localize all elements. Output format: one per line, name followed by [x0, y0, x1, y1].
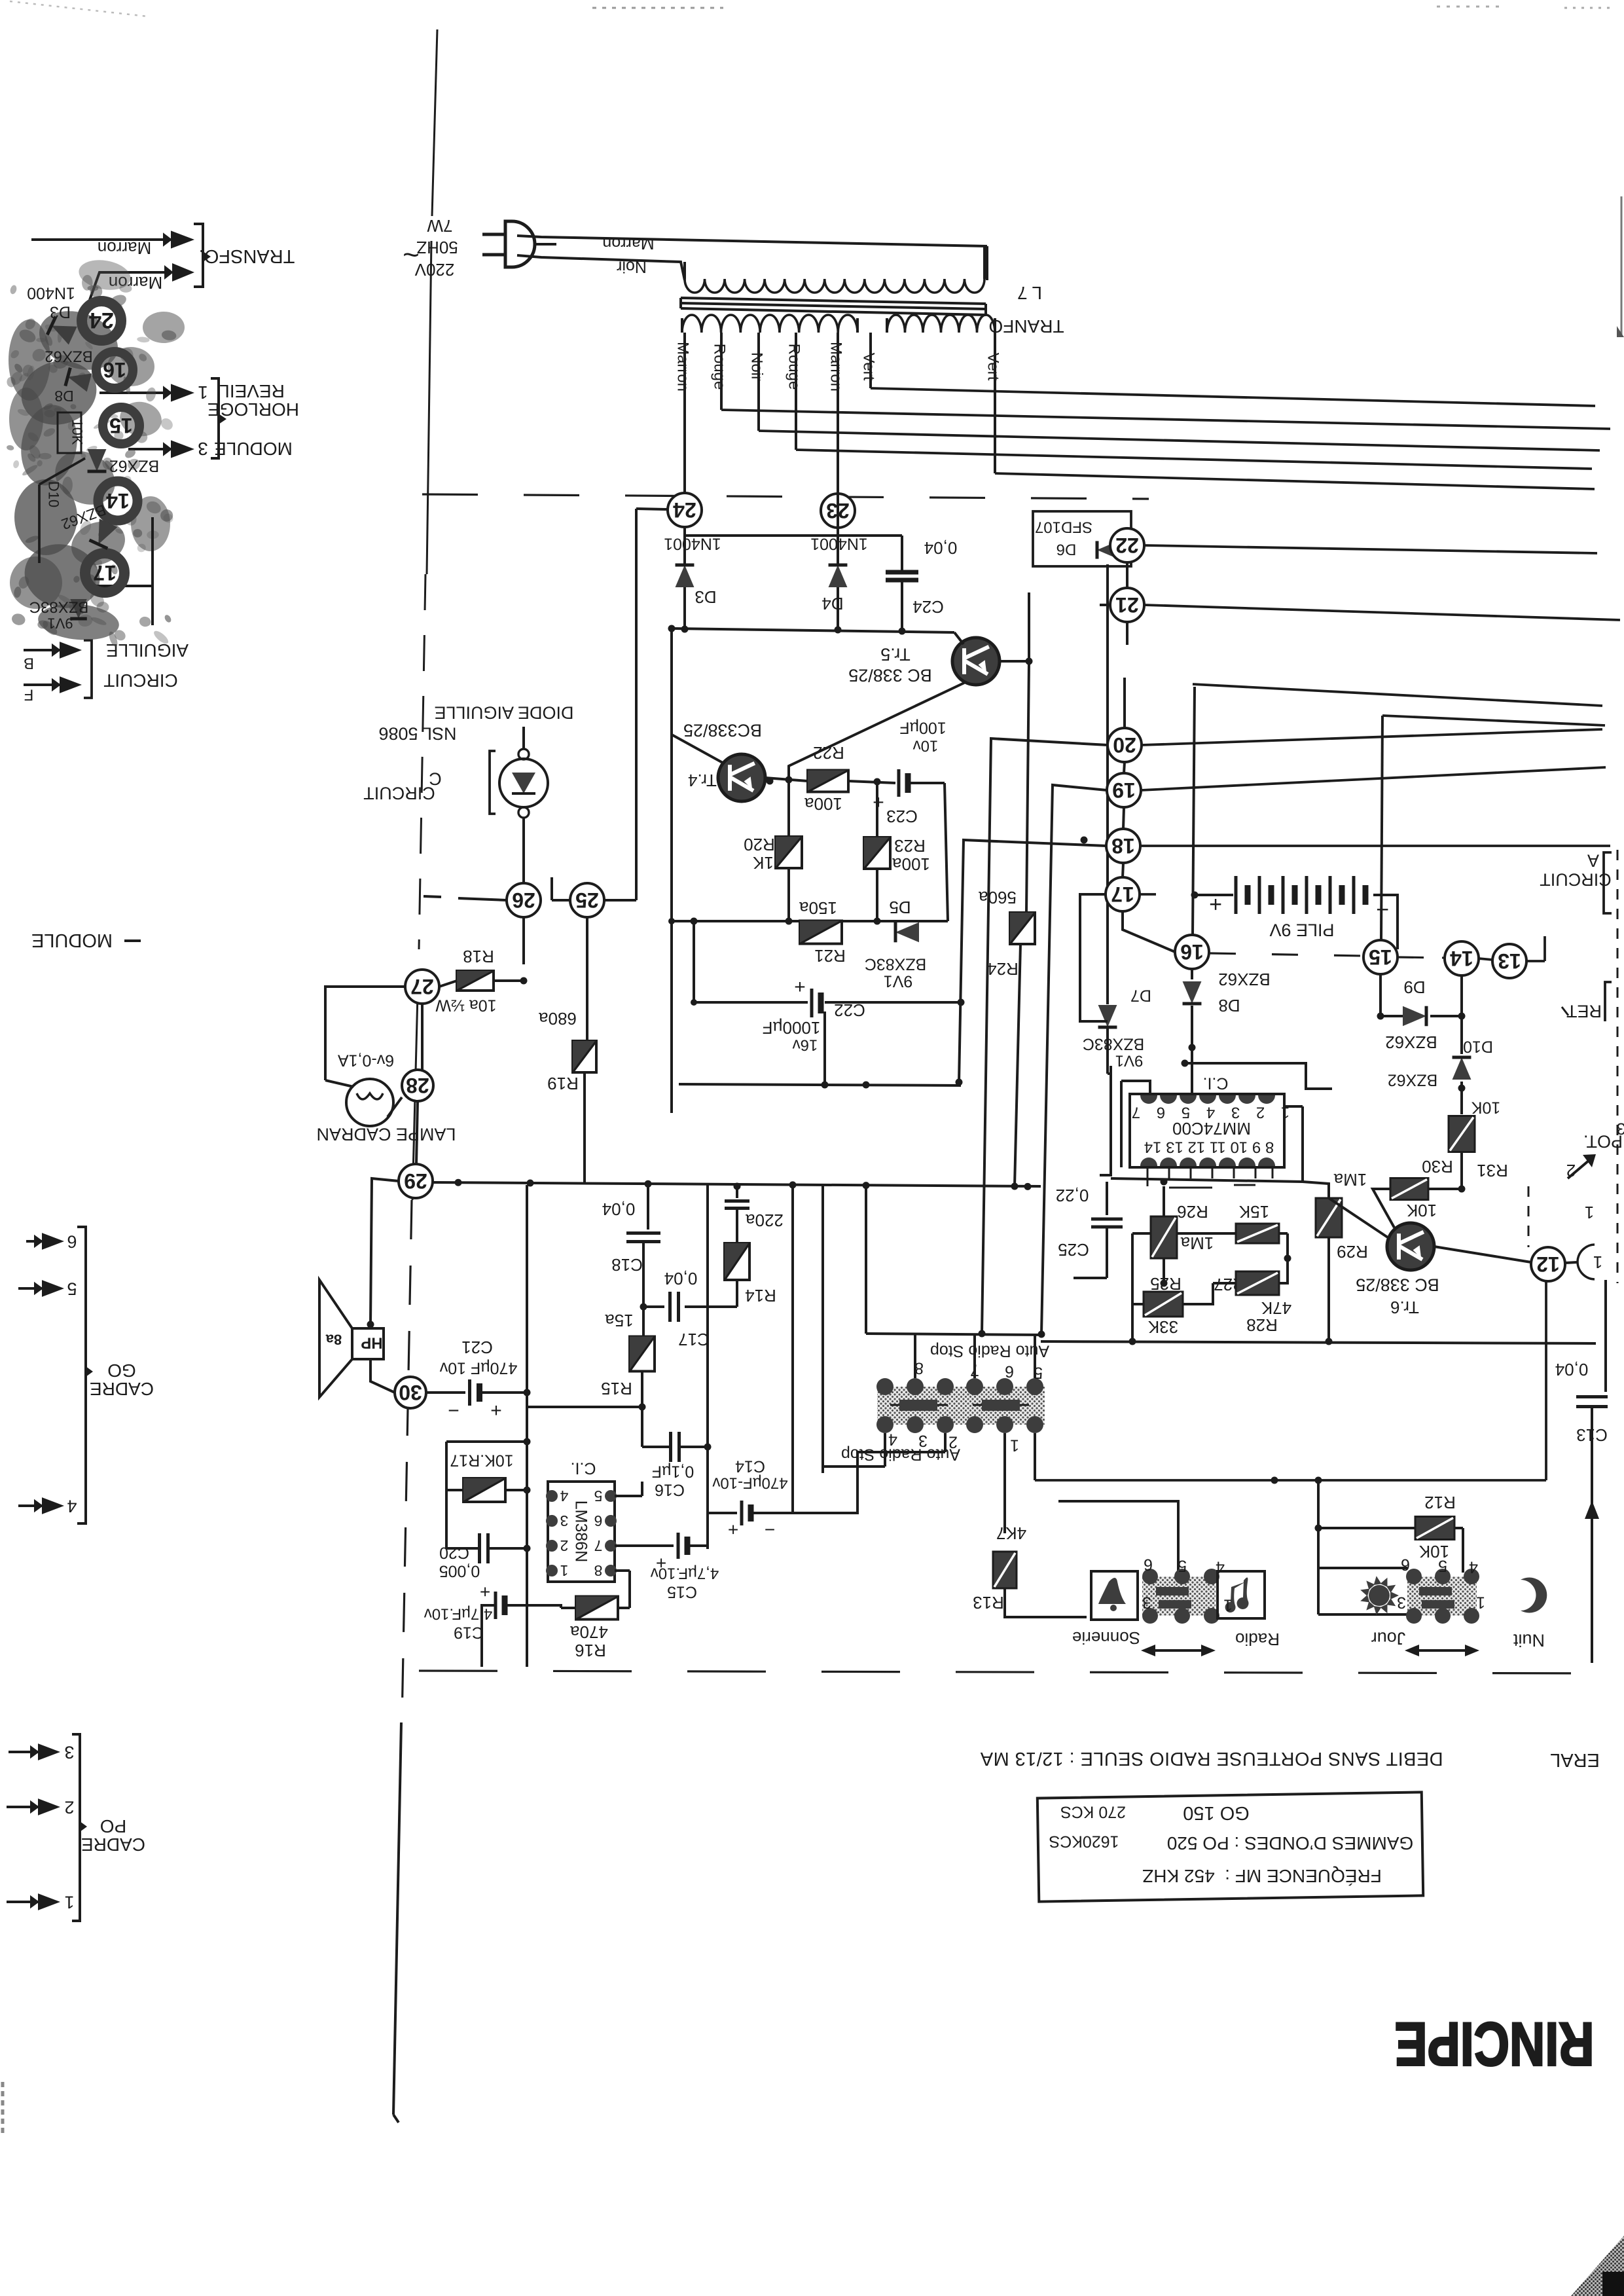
svg-text:26: 26 [512, 888, 535, 912]
svg-text:30: 30 [399, 1381, 422, 1404]
svg-text:BC 338/25: BC 338/25 [848, 666, 932, 685]
svg-text:D9: D9 [1403, 977, 1425, 997]
svg-text:1N4001: 1N4001 [664, 534, 721, 553]
svg-text:4,7µF.10v: 4,7µF.10v [651, 1565, 719, 1582]
svg-text:MODULE: MODULE [31, 930, 113, 951]
svg-text:BZX83C: BZX83C [1083, 1034, 1144, 1053]
svg-text:14: 14 [106, 489, 130, 513]
svg-text:D8: D8 [54, 388, 73, 405]
svg-text:C25: C25 [1058, 1240, 1089, 1260]
svg-text:Sonnerie: Sonnerie [1072, 1628, 1140, 1648]
svg-text:1: 1 [64, 1893, 74, 1912]
svg-text:19: 19 [1112, 778, 1136, 802]
svg-text:3: 3 [64, 1743, 74, 1762]
svg-text:GO: GO [107, 1360, 136, 1381]
svg-text:1Ma: 1Ma [1333, 1170, 1367, 1190]
svg-text:HP: HP [361, 1334, 382, 1352]
svg-text:BZX62: BZX62 [45, 348, 92, 365]
svg-text:−: − [448, 1400, 460, 1421]
svg-text:6: 6 [594, 1512, 603, 1529]
svg-text:C14: C14 [735, 1457, 765, 1475]
svg-text:6v-0,1A: 6v-0,1A [338, 1051, 394, 1069]
svg-text:+: + [480, 1582, 490, 1602]
svg-text:1: 1 [1585, 1203, 1594, 1222]
svg-text:Rouge: Rouge [785, 344, 803, 390]
svg-text:10v: 10v [913, 737, 939, 755]
svg-text:10K.R17: 10K.R17 [450, 1451, 513, 1469]
svg-text:1: 1 [198, 382, 208, 403]
svg-text:BZX62: BZX62 [1385, 1032, 1437, 1052]
svg-text:D6: D6 [1056, 541, 1077, 558]
svg-text:5: 5 [1178, 1556, 1187, 1575]
svg-text:R15: R15 [601, 1379, 632, 1398]
svg-text:1 2 3 4 5 6 7: 1 2 3 4 5 6 7 [1126, 1104, 1290, 1121]
svg-text:GO 150: GO 150 [1183, 1802, 1250, 1823]
svg-text:D10: D10 [1463, 1037, 1493, 1055]
svg-text:100a: 100a [892, 854, 930, 874]
svg-text:R22: R22 [813, 743, 844, 763]
svg-text:7: 7 [594, 1537, 603, 1554]
svg-text:16: 16 [103, 358, 126, 382]
svg-text:7W: 7W [427, 216, 452, 236]
svg-text:HORLOGE: HORLOGE [208, 399, 299, 420]
svg-text:TRANSFO.: TRANSFO. [199, 246, 295, 266]
svg-text:2: 2 [560, 1537, 569, 1554]
svg-text:18: 18 [1111, 834, 1135, 858]
svg-text:Noir: Noir [617, 257, 647, 276]
svg-text:3: 3 [198, 439, 208, 459]
svg-text:F: F [24, 686, 34, 704]
svg-text:17: 17 [93, 561, 117, 585]
svg-text:10K: 10K [69, 419, 85, 445]
svg-text:20: 20 [1113, 733, 1136, 757]
svg-text:9V1: 9V1 [884, 972, 912, 990]
svg-text:1: 1 [1593, 1252, 1602, 1272]
svg-text:0,04: 0,04 [924, 538, 958, 558]
svg-text:16v: 16v [793, 1036, 818, 1054]
svg-text:MM74C00: MM74C00 [1172, 1119, 1251, 1139]
svg-text:RINCIPE: RINCIPE [1395, 2009, 1595, 2078]
svg-text:220V: 220V [414, 260, 454, 280]
svg-text:Jour: Jour [1371, 1629, 1406, 1649]
svg-text:16: 16 [1180, 940, 1204, 964]
svg-text:15: 15 [109, 414, 133, 437]
svg-text:Marron: Marron [674, 342, 692, 392]
svg-text:CADRE: CADRE [81, 1834, 145, 1855]
svg-text:R13: R13 [973, 1593, 1004, 1613]
svg-text:9V1: 9V1 [1115, 1052, 1144, 1070]
svg-text:−: − [765, 1520, 775, 1540]
svg-text:14: 14 [1450, 947, 1473, 970]
svg-text:Radio: Radio [1235, 1630, 1280, 1649]
svg-text:GAMMES D’ONDES : PO 520: GAMMES D’ONDES : PO 520 [1167, 1833, 1414, 1853]
svg-text:Nuit: Nuit [1513, 1631, 1545, 1650]
svg-text:L 7: L 7 [1017, 283, 1042, 303]
svg-text:C.I.: C.I. [571, 1459, 596, 1477]
svg-text:~: ~ [403, 239, 420, 271]
svg-text:CIRCUIT: CIRCUIT [103, 670, 178, 691]
svg-text:AIGUILLE: AIGUILLE [106, 640, 189, 661]
svg-text:4: 4 [1469, 1558, 1478, 1576]
svg-text:1: 1 [560, 1562, 569, 1579]
svg-text:28: 28 [406, 1074, 429, 1097]
svg-text:+: + [728, 1520, 738, 1540]
svg-text:5: 5 [67, 1279, 77, 1299]
svg-text:4K7: 4K7 [996, 1523, 1026, 1543]
svg-text:Marron: Marron [602, 234, 654, 252]
svg-text:C16: C16 [655, 1480, 685, 1499]
svg-text:BZX62: BZX62 [1218, 970, 1271, 989]
svg-text:NSL 5086: NSL 5086 [378, 724, 456, 744]
svg-text:TRANFO: TRANFO [988, 316, 1064, 337]
svg-text:FRÉQUENCE MF : 452 KHZ: FRÉQUENCE MF : 452 KHZ [1142, 1866, 1382, 1886]
svg-text:24: 24 [673, 498, 696, 522]
svg-text:R28: R28 [1246, 1315, 1278, 1335]
svg-text:25: 25 [575, 888, 599, 912]
svg-text:560a: 560a [979, 888, 1017, 907]
svg-text:R18: R18 [463, 947, 494, 966]
svg-text:29: 29 [404, 1169, 427, 1193]
svg-text:3: 3 [1142, 1593, 1151, 1611]
svg-text:C20: C20 [439, 1543, 469, 1561]
svg-text:Auto Radio Stop: Auto Radio Stop [841, 1445, 960, 1463]
svg-text:B: B [24, 655, 34, 672]
svg-text:0,22: 0,22 [1056, 1186, 1089, 1205]
svg-text:6: 6 [1005, 1362, 1014, 1380]
svg-text:0,005: 0,005 [439, 1561, 480, 1580]
svg-text:D4: D4 [821, 594, 843, 613]
svg-text:4: 4 [1216, 1558, 1225, 1576]
svg-text:470µF 10v: 470µF 10v [439, 1358, 517, 1377]
svg-text:5: 5 [594, 1487, 603, 1504]
svg-text:0,1µF: 0,1µF [652, 1462, 694, 1480]
svg-text:PILE 9V: PILE 9V [1269, 920, 1334, 940]
svg-text:DIODE AIGUILLE: DIODE AIGUILLE [434, 703, 573, 723]
svg-text:21: 21 [1115, 593, 1139, 617]
svg-text:4: 4 [67, 1497, 77, 1516]
svg-text:680a: 680a [539, 1009, 577, 1029]
svg-text:0,04: 0,04 [664, 1269, 698, 1288]
svg-text:470µF-10v: 470µF-10v [712, 1474, 787, 1492]
svg-text:470a: 470a [570, 1622, 608, 1642]
svg-text:22: 22 [1115, 534, 1139, 557]
svg-text:RET: RET [1566, 1002, 1602, 1021]
svg-text:6: 6 [1144, 1555, 1153, 1573]
svg-text:R21: R21 [814, 946, 846, 966]
svg-text:R24: R24 [987, 959, 1019, 979]
svg-text:SFD107: SFD107 [1035, 519, 1092, 536]
svg-text:D3: D3 [695, 587, 716, 607]
svg-text:Vert: Vert [984, 353, 1002, 381]
svg-text:100µF: 100µF [899, 718, 946, 737]
svg-text:1N4001: 1N4001 [810, 534, 868, 553]
svg-text:C.I.: C.I. [1203, 1074, 1229, 1092]
svg-text:LAMPE CADRAN: LAMPE CADRAN [316, 1125, 456, 1144]
svg-text:15K: 15K [1238, 1202, 1269, 1222]
svg-text:R29: R29 [1337, 1242, 1368, 1262]
svg-text:+: + [490, 1400, 502, 1421]
svg-text:BC 338/25: BC 338/25 [1356, 1275, 1439, 1295]
svg-text:ERAL: ERAL [1550, 1749, 1600, 1770]
svg-text:220a: 220a [746, 1211, 784, 1230]
svg-text:C24: C24 [912, 597, 944, 617]
svg-text:10K: 10K [1406, 1201, 1437, 1220]
svg-text:Tr.4: Tr.4 [688, 771, 717, 790]
svg-text:LM386N: LM386N [571, 1501, 590, 1563]
svg-text:PO: PO [100, 1816, 126, 1836]
svg-text:10K: 10K [1471, 1098, 1500, 1116]
svg-text:R14: R14 [745, 1286, 776, 1305]
svg-text:33K: 33K [1147, 1317, 1178, 1337]
svg-text:1: 1 [1476, 1593, 1485, 1611]
svg-text:C17: C17 [678, 1330, 710, 1349]
svg-text:270 KCS: 270 KCS [1060, 1802, 1126, 1821]
svg-text:10a ½W: 10a ½W [435, 996, 497, 1014]
svg-text:3: 3 [1397, 1593, 1406, 1611]
svg-text:150a: 150a [799, 898, 837, 918]
svg-text:D8: D8 [1218, 996, 1240, 1015]
svg-text:MODULE: MODULE [214, 439, 293, 459]
svg-text:C19: C19 [454, 1623, 484, 1641]
svg-text:Marron: Marron [827, 342, 845, 392]
svg-text:R19: R19 [547, 1074, 579, 1093]
svg-text:12: 12 [1536, 1252, 1560, 1276]
svg-text:D10: D10 [45, 481, 62, 507]
svg-text:R16: R16 [575, 1641, 606, 1660]
svg-text:50HZ: 50HZ [416, 238, 458, 257]
svg-text:4: 4 [560, 1487, 568, 1504]
svg-text:Rouge: Rouge [711, 344, 729, 390]
svg-text:CIRCUIT: CIRCUIT [363, 784, 435, 803]
svg-text:Auto Radio Stop: Auto Radio Stop [930, 1341, 1049, 1360]
svg-text:C18: C18 [611, 1255, 643, 1275]
svg-text:+: + [794, 976, 806, 998]
svg-text:Tr.6: Tr.6 [1390, 1298, 1419, 1317]
svg-text:3: 3 [560, 1512, 569, 1529]
svg-text:Noir: Noir [748, 352, 766, 381]
svg-text:15a: 15a [605, 1311, 634, 1330]
svg-text:1N400: 1N400 [27, 283, 75, 302]
svg-text:6: 6 [67, 1232, 77, 1252]
svg-text:24: 24 [89, 308, 114, 333]
svg-text:2: 2 [64, 1798, 74, 1817]
svg-text:1: 1 [1010, 1436, 1019, 1454]
svg-text:8 9 10 11 12 13 14: 8 9 10 11 12 13 14 [1144, 1139, 1274, 1156]
svg-text:1: 1 [1223, 1595, 1233, 1614]
svg-text:15: 15 [1369, 945, 1392, 969]
svg-text:1K: 1K [752, 853, 773, 873]
svg-text:C23: C23 [886, 807, 918, 826]
svg-text:47K: 47K [1261, 1298, 1291, 1318]
svg-text:R31: R31 [1477, 1161, 1508, 1180]
svg-text:2: 2 [1566, 1161, 1576, 1180]
svg-text:R26: R26 [1177, 1202, 1208, 1222]
svg-text:D5: D5 [889, 898, 911, 917]
svg-text:BZX83C: BZX83C [865, 955, 926, 973]
svg-text:BC338/25: BC338/25 [683, 721, 762, 740]
svg-text:CIRCUIT: CIRCUIT [1540, 870, 1612, 890]
svg-text:5: 5 [1438, 1556, 1447, 1575]
svg-text:D7: D7 [1130, 986, 1151, 1004]
svg-text:Marron: Marron [98, 238, 151, 258]
svg-text:R30: R30 [1422, 1157, 1453, 1176]
svg-text:D3: D3 [50, 302, 71, 321]
svg-text:17: 17 [1111, 883, 1134, 906]
svg-text:13: 13 [1498, 949, 1521, 973]
svg-text:Vert: Vert [860, 353, 878, 381]
svg-text:0,04: 0,04 [1555, 1360, 1589, 1379]
svg-text:BZX83C: BZX83C [29, 598, 89, 616]
svg-text:R12: R12 [1424, 1493, 1456, 1512]
svg-text:Tr.5: Tr.5 [880, 645, 911, 665]
svg-text:1620KCS: 1620KCS [1049, 1832, 1119, 1850]
svg-text:C21: C21 [461, 1338, 493, 1357]
svg-text:REVEIL: REVEIL [219, 381, 285, 401]
svg-text:9V1: 9V1 [47, 615, 73, 631]
svg-text:8: 8 [594, 1562, 603, 1579]
svg-text:BZX62: BZX62 [109, 456, 159, 475]
svg-text:BZX62: BZX62 [1388, 1070, 1437, 1089]
svg-text:DEBIT SANS PORTEUSE RADIO SEUL: DEBIT SANS PORTEUSE RADIO SEULE : 12/13 … [980, 1748, 1443, 1769]
svg-text:CADRE: CADRE [90, 1379, 154, 1399]
svg-text:100a: 100a [804, 794, 842, 814]
svg-text:0,04: 0,04 [602, 1199, 636, 1219]
svg-text:8a: 8a [325, 1331, 342, 1347]
svg-text:6: 6 [1401, 1555, 1410, 1573]
svg-text:1000µF: 1000µF [763, 1018, 821, 1038]
svg-text:27: 27 [410, 975, 434, 998]
svg-text:C15: C15 [667, 1582, 697, 1601]
svg-text:R23: R23 [894, 836, 926, 856]
svg-text:A: A [1587, 851, 1599, 871]
svg-text:1Ma: 1Ma [1180, 1233, 1214, 1253]
svg-text:R20: R20 [744, 835, 775, 854]
